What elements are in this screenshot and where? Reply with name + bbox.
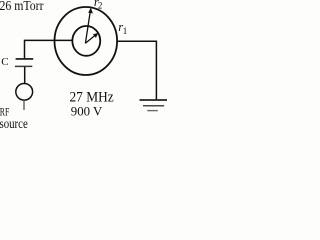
ground bar 1 xyxy=(140,99,168,101)
svg-text:26 mTorr: 26 mTorr xyxy=(0,0,44,13)
inner electrode circle xyxy=(72,26,100,56)
label r2 xyxy=(94,0,103,11)
RF source bottom stub xyxy=(23,100,25,110)
svg-text:900 V: 900 V xyxy=(71,103,103,118)
wire: outer electrode to ground corner xyxy=(117,41,156,100)
capacitor C bottom plate xyxy=(15,65,32,67)
outer electrode circle xyxy=(55,7,118,75)
capacitor C top plate xyxy=(16,58,34,60)
wire: capacitor corner to inner electrode xyxy=(25,39,73,41)
arrow r1 (center to inner circle) xyxy=(85,33,98,43)
svg-text:source: source xyxy=(0,117,28,131)
svg-text:C: C xyxy=(1,56,8,68)
wire: capacitor to RF source xyxy=(24,67,26,84)
ground bar 2 xyxy=(143,105,164,107)
label r1 xyxy=(118,20,127,36)
arrow r2 (center to outer circle) xyxy=(85,8,93,44)
ground bar 3 xyxy=(147,110,158,112)
wire: corner down to capacitor xyxy=(24,40,26,59)
svg-text:2: 2 xyxy=(98,1,103,11)
RF source circle xyxy=(16,84,33,101)
svg-text:1: 1 xyxy=(123,26,128,36)
